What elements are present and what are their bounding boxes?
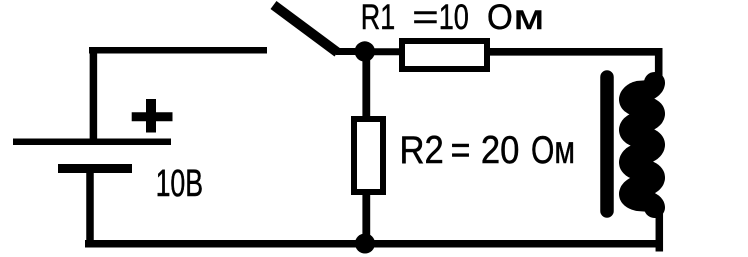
svg-text:О: О [487, 0, 513, 37]
wire: left vertical, top wire down to battery plate [90, 47, 98, 141]
resistor R1 body [402, 41, 487, 69]
wire: battery positive to switch (top-left horizontal) [89, 47, 267, 54]
label R2 = 20 Ом [400, 128, 575, 172]
wire: switch to node A [336, 48, 366, 55]
svg-text:Ом: Ом [531, 128, 575, 172]
plus sign (battery polarity) [132, 99, 173, 133]
svg-text:R1: R1 [361, 0, 395, 37]
wire: R1 right lead to top-right corner, down to inductor [487, 52, 659, 76]
switch S blade (open) [274, 5, 338, 53]
svg-text:=: = [451, 128, 471, 172]
node B (bottom junction dot) [355, 234, 375, 254]
bottom wire (negative rail) [85, 240, 663, 248]
inductor L core bar [600, 77, 614, 211]
svg-text:20: 20 [481, 128, 520, 171]
node A (top junction dot) [355, 41, 375, 61]
battery GB1 short negative plate [58, 164, 132, 173]
svg-text:10В: 10В [156, 161, 203, 204]
wire: R2 bottom lead to node B [362, 192, 370, 244]
svg-text:=: = [412, 0, 438, 37]
battery GB1 long positive plate [13, 139, 171, 146]
wire: node A to R1 left lead [364, 48, 402, 55]
wire: node A down to R2 top lead [362, 51, 370, 119]
label R1 =10 Ом [361, 0, 544, 37]
wire: coil bottom to bottom wire [656, 210, 664, 252]
resistor R2 body [354, 119, 383, 192]
wire: battery negative down to bottom wire [86, 168, 94, 248]
svg-text:м: м [514, 0, 545, 37]
svg-text:R2: R2 [400, 128, 444, 171]
inductor L winding (coil) [630, 83, 655, 208]
svg-text:10: 10 [439, 0, 469, 37]
